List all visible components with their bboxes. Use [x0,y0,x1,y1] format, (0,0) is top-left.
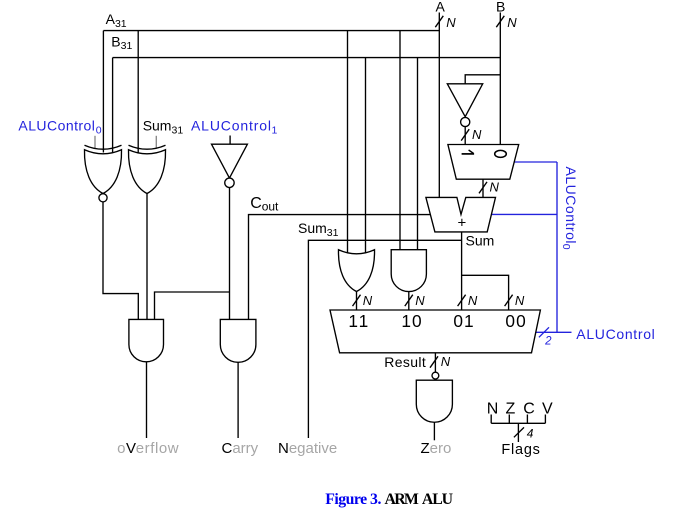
label 0 mux input rotated [495,150,507,157]
svg-text:01: 01 [453,311,473,331]
svg-text:ARM: ARM [385,491,419,508]
or gate (mux 11 input) [338,250,374,292]
bus slash on A [435,16,443,27]
wire A bus horizontal (A31 row) [103,30,439,32]
svg-text:N: N [490,180,500,195]
wire A tap to OR gate [347,31,349,253]
result mux 4:1 [330,310,540,353]
inverter U1 (ALUControl1) [212,144,248,187]
svg-text:B31: B31 [111,33,132,52]
svg-text:ALUControl: ALUControl [576,326,655,342]
bus slash on B [496,16,504,27]
svg-text:ALUControl: ALUControl [18,118,95,134]
wire Sum31 tap to Negative [308,240,461,438]
svg-text:Z: Z [506,401,516,418]
svg-text:Zero: Zero [421,440,452,457]
wire XNOR output jog to overflow AND [103,202,138,320]
grey stub ALUControl0 into XNOR [94,136,96,148]
blue wire ALUControl0 vertical [556,162,558,332]
bus slash on or output [353,295,361,306]
wire A vertical [438,13,440,198]
wire Sum output to result mux 01 [461,232,463,310]
wire flags drop [517,423,519,442]
xor gate X2 (A31 Sum31) [128,145,165,193]
svg-text:Flags: Flags [501,442,540,458]
wire Sum branch to 00 input [462,275,509,310]
wire B tap to AND gate [417,58,419,250]
svg-text:C: C [250,195,262,212]
bus slash on and output [405,295,413,306]
svg-text:C: C [523,401,535,418]
svg-text:out: out [262,199,279,213]
wire inverter U1 tap to overflow AND [155,292,230,319]
svg-text:Carry: Carry [222,440,259,457]
wire inverter U1 output to carry AND [229,188,231,320]
svg-text:0: 0 [96,124,102,136]
wire A31 tap to XOR [137,31,139,153]
xnor gate X1 (A31 B31 ALUControl0) [84,145,121,202]
bus slash on sum 01 input [458,295,466,306]
svg-text:B: B [496,0,505,15]
wire zero gate output [433,422,435,440]
blue wire ALUControl bus [536,331,572,333]
svg-text:N: N [468,293,478,308]
svg-text:10: 10 [401,311,421,331]
wire B vertical [499,13,501,145]
wire A31 drop to XNOR [102,31,104,153]
wire Cout to carry AND [249,215,431,320]
svg-text:11: 11 [348,311,368,331]
flags ticks and bar [491,415,545,424]
and gate (mux 10 input) [391,250,426,292]
svg-text:Sum: Sum [466,232,495,248]
svg-text:oVerflow: oVerflow [117,440,179,457]
blue wire adder carry-in [491,213,557,215]
svg-text:A: A [436,0,446,15]
wire mux output to adder [482,179,484,197]
svg-text:4: 4 [527,426,534,440]
svg-text:N: N [415,293,425,308]
svg-text:1: 1 [272,124,278,136]
zero gate bubble [432,372,439,379]
svg-text:+: + [458,215,467,232]
svg-text:ALU: ALU [422,491,454,508]
caption Figure 3. ARM ALU [325,491,453,508]
svg-text:ALUControl: ALUControl [191,118,271,134]
svg-text:Sum31: Sum31 [143,118,184,137]
blue bus slash 2 [539,327,549,337]
svg-text:0: 0 [560,244,572,250]
svg-text:A31: A31 [106,11,127,30]
wire Result output [434,353,436,372]
svg-text:Negative: Negative [278,440,337,457]
svg-text:N: N [363,293,373,308]
svg-text:Result: Result [384,354,426,370]
grey stub Sum31 into XOR [155,136,157,148]
wire carry AND output to Carry [237,362,239,438]
svg-text:2: 2 [544,336,552,348]
svg-text:N: N [487,401,499,418]
wire B tap to OR gate [365,58,367,253]
svg-text:ALUControl: ALUControl [563,167,579,244]
wire OR gate output to mux 11 [356,292,358,311]
svg-text:N: N [515,293,525,308]
wire B bus horizontal (B31 row) [113,57,501,59]
wire B31 drop to XNOR [112,58,114,153]
wire AND gate output to mux 10 [408,292,410,310]
svg-text:Sum31: Sum31 [298,220,339,239]
bus slash on flags [514,427,524,437]
flag letters N Z C V [487,401,553,418]
adder U3 [426,197,496,232]
wire ALUControl1 label to inverter U1 [229,136,231,145]
and gate carry [220,319,256,362]
wire A tap to AND gate [399,31,401,250]
svg-text:N: N [441,354,451,369]
bus slash on inverter U2 output [461,129,469,140]
bus slash on 00 input [505,295,513,306]
wire overflow AND output to oVerflow [146,362,148,438]
bus slash on result [430,356,438,367]
inverter U2 (B) [447,84,482,127]
svg-text:Figure 3.: Figure 3. [325,491,381,508]
svg-text:V: V [542,401,553,418]
wire B feed to inverter U2 [465,75,500,84]
wire XOR output to overflow AND [146,193,148,319]
mux 2:1 B/~B [448,145,519,180]
svg-text:N: N [507,15,517,30]
svg-text:N: N [446,15,456,30]
bus slash on mux output [479,182,487,193]
zero gate (NOR) [416,380,452,422]
svg-text:00: 00 [505,311,525,331]
label 1 mux input rotated [462,150,475,154]
svg-text:N: N [472,127,482,142]
wire inverter U2 output to mux [464,126,466,145]
and gate overflow [129,319,164,361]
blue wire mux select [514,161,557,163]
